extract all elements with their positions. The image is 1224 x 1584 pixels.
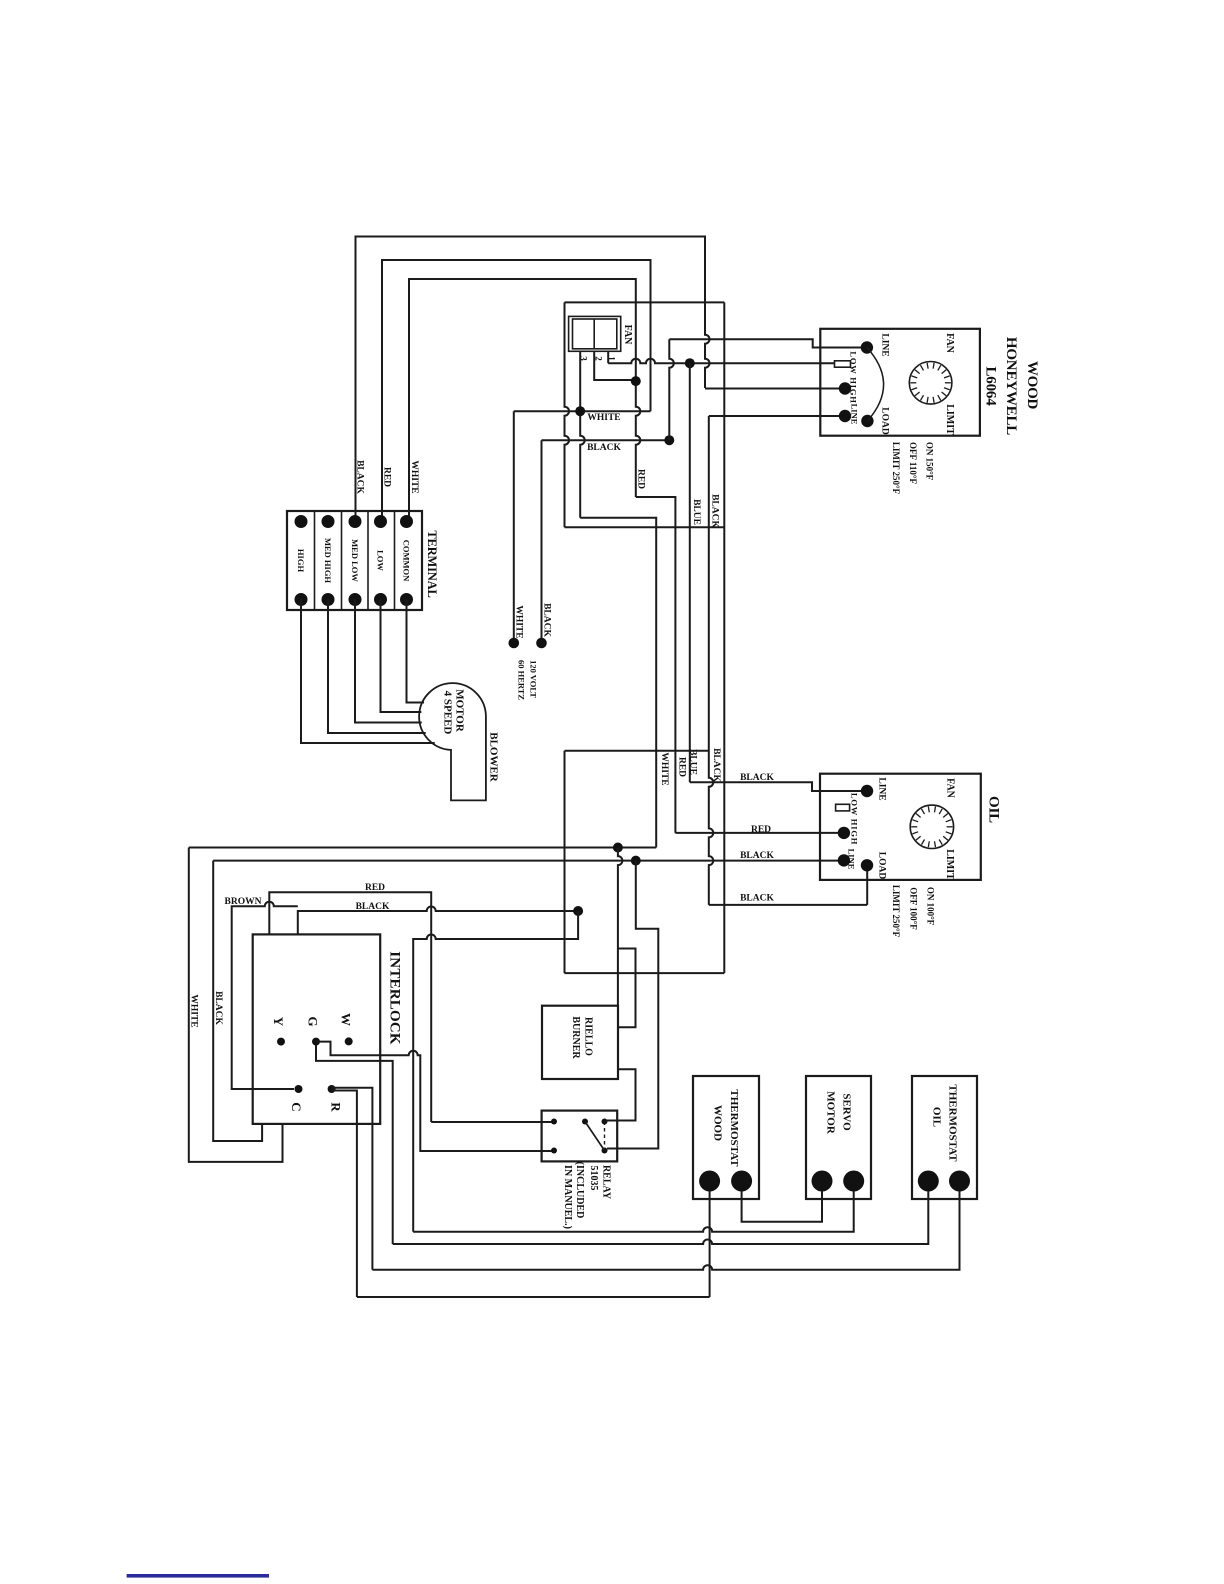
box servo motor (806, 1076, 871, 1199)
svg-text:LINE: LINE (880, 333, 890, 356)
wire terminal HIGH to motor (301, 600, 435, 744)
wire black left drop to interlock (213, 861, 262, 1141)
dot interlock Y (277, 1038, 285, 1046)
dot servo left (812, 1171, 833, 1192)
svg-text:BLACK: BLACK (740, 773, 774, 783)
box thermostat wood (693, 1076, 759, 1199)
svg-text:L6064: L6064 (983, 366, 999, 406)
dot 120V white lead (509, 638, 520, 649)
terminal top dot 1 (295, 515, 308, 528)
dot servo right (843, 1171, 864, 1192)
arc wood line-load (867, 348, 884, 422)
enclosure rectangle left edge with hops (565, 302, 570, 527)
enclosure rectangle right edge long vertical (723, 302, 725, 973)
fan switch divider (593, 319, 595, 349)
wire R to loop2 (332, 1088, 373, 1270)
svg-text:ON 150°F: ON 150°F (925, 442, 935, 481)
terminal bottom dot 2 (322, 593, 335, 606)
terminal top dot 2 (322, 515, 335, 528)
wire red loop B lower segment to WHITE line elbow (650, 302, 652, 411)
wire terminal MED HIGH to motor (328, 600, 426, 734)
dot relay tl (551, 1119, 557, 1125)
wire RED tstat line (269, 892, 431, 1122)
wire riello to relay tr (606, 1069, 636, 1120)
jumper rect oil (836, 804, 850, 811)
terminal bottom dot 1 (295, 593, 308, 606)
wire white jog to oil area (580, 518, 656, 848)
wire riello right branch (618, 949, 636, 1028)
wire 120V black drop (541, 440, 543, 641)
svg-text:HONEYWELL: HONEYWELL (1003, 337, 1019, 435)
svg-text:TERMINAL: TERMINAL (425, 530, 439, 597)
wire 120V white drop (513, 411, 515, 641)
svg-text:ON 100°F: ON 100°F (926, 887, 936, 926)
wire dot578 drop to loop4 (413, 911, 578, 1232)
wire black speed-tap loop A top (356, 237, 706, 520)
svg-text:INTERLOCK: INTERLOCK (387, 951, 403, 1045)
dot wood HIGH (839, 382, 851, 394)
relay arm (585, 1122, 605, 1151)
dot tstat oil left (918, 1171, 939, 1192)
svg-text:LOAD: LOAD (880, 407, 890, 435)
wire fan stub 2 to junction on red drop (594, 351, 633, 380)
svg-text:BURNER: BURNER (570, 1016, 581, 1059)
fan switch inner box (573, 319, 617, 349)
junction dot black-relay takeoff (631, 856, 641, 866)
box interlock (253, 934, 381, 1124)
svg-text:RED: RED (751, 825, 771, 835)
terminal top dot 4 (374, 515, 387, 528)
wire BLACK drop wood LINE2 to oil load line (709, 416, 714, 905)
wire tie bottom y973 (565, 972, 725, 974)
junction dot white-riello takeoff (613, 843, 623, 853)
svg-text:LOW HIGH: LOW HIGH (849, 351, 859, 403)
svg-text:BLOWER: BLOWER (488, 732, 500, 783)
svg-text:MOTOR: MOTOR (825, 1091, 837, 1135)
svg-text:BLACK: BLACK (355, 460, 365, 494)
dot tstat wood left (699, 1171, 720, 1192)
svg-text:WOOD: WOOD (712, 1105, 724, 1141)
wire terminal LOW to motor (381, 600, 422, 713)
svg-text:51035: 51035 (588, 1166, 599, 1191)
box thermostat oil (912, 1076, 977, 1199)
svg-text:MED HIGH: MED HIGH (323, 538, 333, 583)
svg-text:LIMIT: LIMIT (944, 849, 955, 880)
wire fan stub 1 vertical (607, 351, 609, 363)
terminal bottom dot 4 (374, 593, 387, 606)
blower outline (419, 683, 486, 800)
wire long WHITE line (189, 847, 656, 849)
terminal top dot 3 (349, 515, 362, 528)
svg-text:BLACK: BLACK (740, 851, 774, 861)
wire G elbow to relay (316, 1042, 552, 1151)
svg-text:OFF 100°F: OFF 100°F (909, 887, 919, 930)
wire terminal COMMON to motor (407, 600, 424, 703)
svg-text:BLACK: BLACK (587, 443, 621, 453)
relay dashed contact (604, 1122, 606, 1151)
junction dot white line - fan stub3 (575, 406, 585, 416)
enclosure rectangle bottom edge (565, 526, 725, 528)
wire terminal MED LOW to motor (355, 600, 422, 723)
svg-text:WOOD: WOOD (1024, 361, 1040, 410)
dot relay bl (551, 1148, 557, 1154)
dot interlock W (345, 1037, 353, 1045)
junction dot stub2-red drop (631, 376, 641, 386)
svg-text:W: W (339, 1013, 354, 1026)
wire fan stub 3 down to white line then elbow to x656 (580, 351, 585, 517)
svg-text:BLACK: BLACK (740, 893, 774, 903)
svg-text:RED: RED (636, 469, 646, 489)
svg-text:LIMIT: LIMIT (944, 404, 955, 435)
box WOOD honeywell L6064 (820, 329, 980, 436)
wire red speed-tap loop B (382, 260, 651, 519)
svg-text:RIELLO: RIELLO (583, 1017, 594, 1056)
terminal divider 1 (314, 511, 316, 610)
wire WHITE line from plug to elbow (514, 410, 651, 412)
junction dot blue takeoff on stub1 line (685, 358, 695, 368)
svg-text:BLACK: BLACK (356, 902, 390, 912)
dot 120V black lead (536, 638, 547, 649)
svg-text:RELAY: RELAY (601, 1165, 612, 1200)
dot interlock C (295, 1085, 303, 1093)
wire G second drop to loop3 (316, 1045, 393, 1244)
dot relay tr (602, 1119, 608, 1125)
dot wood LINE2 (839, 410, 851, 422)
terminal divider 2 (341, 511, 343, 610)
wire wood LINE feed with step (669, 339, 865, 347)
wire BROWN line with hop (232, 902, 298, 1089)
svg-text:LOW HIGH: LOW HIGH (850, 793, 860, 845)
dot wood LOAD (861, 415, 873, 427)
wire wood left drop to loop1 (709, 1191, 711, 1297)
svg-text:WHITE: WHITE (409, 460, 419, 493)
wire loop1 bottom (357, 1296, 710, 1298)
svg-text:LIMIT 250°F: LIMIT 250°F (891, 885, 901, 938)
svg-text:Y: Y (271, 1017, 286, 1027)
dot oil LOAD (861, 859, 873, 871)
terminal divider 4 (394, 511, 396, 610)
svg-text:LOAD: LOAD (877, 852, 887, 880)
svg-text:60 HERTZ: 60 HERTZ (517, 660, 527, 700)
svg-text:LINE: LINE (877, 777, 887, 800)
wire loop3 bottom to oil tstat left (393, 1191, 929, 1244)
svg-text:4 SPEED: 4 SPEED (442, 691, 454, 735)
box relay (542, 1111, 618, 1162)
wire BLACK tstat line with hop (298, 907, 578, 935)
box OIL aquastat (820, 774, 981, 880)
svg-text:BROWN: BROWN (225, 897, 262, 907)
terminal bottom dot 5 (400, 593, 413, 606)
wire tie line y750 (565, 750, 709, 752)
dot oil LINE2 (838, 854, 850, 866)
wire RED to relay top left (431, 1121, 552, 1123)
svg-text:BLUE: BLUE (691, 499, 701, 525)
svg-text:(INCLUDED: (INCLUDED (574, 1162, 585, 1219)
junction dot black tstat (573, 906, 583, 916)
dot oil HIGH (838, 827, 850, 839)
enclosure box around fan switch (left edge hops white+black lines) (564, 527, 566, 750)
svg-text:OFF 110°F: OFF 110°F (908, 442, 918, 485)
svg-text:MOTOR: MOTOR (454, 689, 466, 733)
dot tstat oil right (949, 1171, 970, 1192)
footer blue rule (127, 1574, 269, 1578)
wire riello feed drop from white dot (618, 848, 623, 1006)
wire tie vertical x564 (564, 751, 566, 973)
dot relay pivot (582, 1119, 588, 1125)
junction dot black line end (664, 435, 674, 445)
wire R to loop1 (332, 1091, 357, 1298)
dot wood LINE (861, 341, 873, 353)
wire relay feed drop from black dot (607, 861, 658, 1149)
svg-text:LOW: LOW (376, 550, 386, 571)
svg-text:FAN: FAN (945, 778, 956, 799)
dot interlock G (312, 1038, 320, 1046)
svg-text:LIMIT 250°F: LIMIT 250°F (891, 442, 901, 495)
wire loop4 bottom to servo right (413, 1191, 854, 1232)
svg-text:OIL: OIL (986, 796, 1002, 823)
svg-text:SERVO: SERVO (841, 1093, 853, 1131)
svg-text:WHITE: WHITE (659, 752, 669, 785)
svg-text:HIGH: HIGH (296, 549, 306, 573)
svg-text:BLACK: BLACK (213, 991, 223, 1025)
svg-text:RED: RED (365, 883, 385, 893)
wire h5 wood LINE2 (709, 415, 845, 417)
svg-text:OIL: OIL (931, 1107, 943, 1127)
wire oil LOAD black return (709, 904, 867, 906)
wire black vertical to WOOD HIGH with hops (705, 302, 710, 388)
dial wood aquastat (909, 362, 952, 405)
wire loop2 bottom to oil tstat right (372, 1191, 959, 1270)
svg-text:COMMON: COMMON (402, 540, 412, 582)
svg-text:G: G (306, 1016, 321, 1026)
wire oil HIGH feed (675, 832, 842, 834)
svg-text:MED LOW: MED LOW (350, 539, 360, 582)
dot interlock R (328, 1085, 336, 1093)
fan switch outer box (569, 316, 621, 351)
terminal top dot 5 (400, 515, 413, 528)
wire oil LINE feed with step (690, 782, 865, 791)
wire wood right to servo left U (742, 1191, 822, 1222)
dot relay br (602, 1148, 608, 1154)
svg-text:FAN: FAN (622, 325, 633, 346)
svg-text:IN MANUEL.): IN MANUEL.) (562, 1165, 573, 1229)
svg-text:BLUE: BLUE (688, 749, 698, 775)
wire oil LOAD drop (866, 865, 868, 905)
svg-text:WHITE: WHITE (189, 994, 199, 1027)
svg-text:R: R (329, 1102, 344, 1112)
svg-text:WHITE: WHITE (587, 413, 620, 423)
svg-text:BLACK: BLACK (711, 748, 721, 782)
wire h4 to WOOD HIGH dot (705, 388, 845, 390)
wire white common loop C (409, 279, 636, 519)
svg-text:C: C (289, 1102, 304, 1111)
box riello burner (542, 1006, 618, 1079)
wire RED jog to oil aquastat column (636, 497, 676, 833)
wire long BLACK line to oil LINE2 (213, 860, 842, 862)
wire C vertical / RED drop with hops at white+black lines (636, 302, 641, 497)
wire BLUE drop from stub1 junction (689, 363, 691, 782)
jumper rect wood (835, 361, 851, 367)
svg-text:RED: RED (677, 757, 687, 777)
wire fan stub 1 line to wood jumper with hops (608, 359, 834, 364)
dial oil aquastat (910, 805, 953, 848)
wire white left drop to interlock (189, 848, 283, 1162)
svg-text:THERMOSTAT: THERMOSTAT (947, 1084, 959, 1162)
box terminal block (287, 511, 422, 610)
terminal bottom dot 3 (349, 593, 362, 606)
svg-text:120 VOLT: 120 VOLT (529, 660, 539, 698)
dot tstat wood right (731, 1171, 752, 1192)
svg-text:FAN: FAN (944, 333, 955, 354)
svg-text:RED: RED (382, 467, 392, 487)
wire black riser to wood LINE feed (669, 339, 674, 440)
terminal divider 3 (367, 511, 369, 610)
svg-text:THERMOSTAT: THERMOSTAT (728, 1089, 740, 1167)
svg-text:BLACK: BLACK (542, 603, 552, 637)
svg-text:BLACK: BLACK (710, 494, 720, 528)
svg-text:WHITE: WHITE (514, 605, 524, 638)
dot oil LINE (861, 785, 873, 797)
enclosure rectangle top edge (565, 301, 725, 303)
wire BLACK line from plug to wood line dot (542, 439, 668, 441)
svg-text:LINE: LINE (850, 404, 860, 425)
